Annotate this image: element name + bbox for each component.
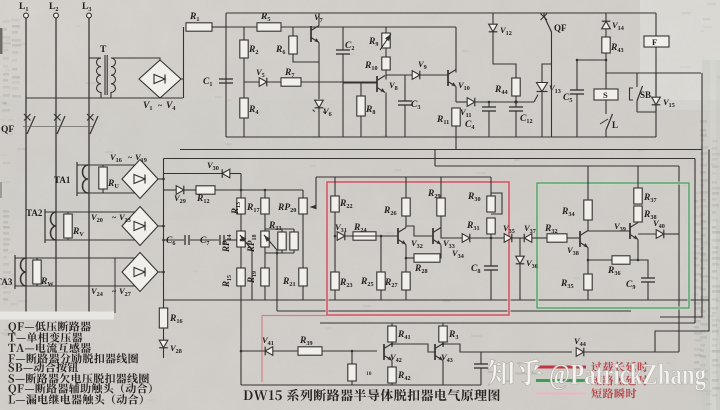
current transformer TA2 <box>26 208 56 243</box>
wire R1 to bus <box>212 26 226 28</box>
resistor R4 <box>240 98 259 118</box>
wire V38 collector <box>587 220 589 231</box>
label V16~V19 <box>110 152 147 164</box>
svg-text:SB: SB <box>640 90 651 100</box>
wire cap row <box>164 239 242 241</box>
title text <box>244 389 500 401</box>
wire amp top bus <box>316 176 491 178</box>
wire column B <box>264 190 266 300</box>
diode V41 <box>262 335 274 355</box>
label V1~V4 <box>143 101 175 112</box>
diode V29 <box>174 186 186 206</box>
resistor R31 <box>466 218 495 238</box>
legend line instantaneous (pink) <box>536 388 636 398</box>
svg-text:F: F <box>652 37 657 47</box>
capacitor C10 <box>474 352 488 385</box>
capacitor C2 <box>336 27 354 137</box>
wire bus B <box>180 149 702 151</box>
box overload long-delay (red) <box>327 182 509 315</box>
diode V37 <box>512 223 547 242</box>
resistor R21 <box>282 268 307 288</box>
wire V39 base <box>588 230 630 232</box>
bridge rectifier V20~V23 <box>122 207 158 246</box>
contact L <box>600 100 618 137</box>
wire T primary <box>89 58 101 98</box>
resistor R28 <box>406 245 441 275</box>
diode V31 <box>335 222 347 240</box>
resistor R29 <box>427 177 445 216</box>
diode V9 <box>412 59 427 79</box>
transistor V38 <box>567 231 588 258</box>
potentiometer RP14 <box>221 231 252 253</box>
wire V32 emitter <box>405 245 407 273</box>
wire V43 emitter <box>442 361 444 386</box>
wire bus A <box>226 136 656 138</box>
wire TA1 out <box>158 178 164 180</box>
resistor R3 <box>439 323 459 347</box>
resistor R39 <box>298 336 377 355</box>
wire bottom rail <box>26 97 183 99</box>
resistor R38 <box>634 206 657 222</box>
wire bottom bus <box>241 384 481 386</box>
resistor R44 <box>494 78 520 102</box>
box short-circuit delay (green) <box>537 183 689 308</box>
wire phase L3 <box>88 18 90 313</box>
wire bus G <box>164 299 710 301</box>
wire SB rail <box>606 72 701 74</box>
capacitor C3 <box>398 75 420 137</box>
coil F <box>644 13 669 137</box>
resistor R10 <box>364 57 390 72</box>
wire TA2 rails <box>45 212 135 240</box>
capacitor C7 <box>200 235 224 247</box>
terminal L3 <box>82 2 91 21</box>
diode V14 <box>602 13 624 37</box>
wire TA bus vertical <box>163 159 165 309</box>
wire V34 out <box>470 237 504 239</box>
resistor R8 <box>357 83 376 137</box>
legend line overload (red) <box>536 362 648 372</box>
diode V30 <box>164 160 242 178</box>
wire red tail <box>262 316 327 383</box>
transistor V43 <box>435 344 453 365</box>
resistor R26 <box>383 177 410 217</box>
wire V32 collector <box>405 216 407 228</box>
wire R43 junction <box>577 60 606 89</box>
svg-text:QF: QF <box>1 125 14 135</box>
transistor V32 <box>398 228 423 251</box>
wire RP18 wiper <box>276 250 278 311</box>
button SB <box>630 73 652 112</box>
diode V11 <box>460 98 475 120</box>
wire RP14 wiper <box>251 250 253 300</box>
wire collector rail <box>386 74 412 76</box>
resistor R15 <box>221 268 245 288</box>
wire column C <box>302 190 304 300</box>
diode V12 <box>489 13 516 78</box>
terminal L1 <box>19 2 28 21</box>
svg-text:L: L <box>612 120 618 130</box>
svg-text:10: 10 <box>366 371 372 377</box>
resistor R11 <box>436 108 460 149</box>
breaker QF contacts <box>23 114 98 134</box>
diode V40 <box>653 218 679 238</box>
wire bus I <box>320 322 695 324</box>
resistor R36 <box>588 256 638 277</box>
resistor R17 <box>246 198 269 214</box>
wire V41 rail <box>241 350 298 352</box>
transformer T <box>97 45 116 95</box>
svg-text:S: S <box>603 90 608 100</box>
wire gate line <box>456 101 534 103</box>
wire phase L1 <box>25 18 27 313</box>
capacitor C6 <box>166 235 189 247</box>
diode V28 <box>159 328 182 358</box>
transistor V33 <box>433 228 455 251</box>
wire R2R4 column <box>243 27 245 137</box>
resistor R25 <box>360 236 385 300</box>
capacitor C5 <box>563 60 584 137</box>
watermark <box>488 358 706 391</box>
thyristor V13 <box>534 64 561 137</box>
label V20~V23 <box>91 212 131 224</box>
resistor R19 <box>246 268 269 286</box>
capacitor C12 <box>509 102 533 137</box>
wire phase L2 <box>55 18 57 313</box>
potentiometer R9 <box>368 33 391 50</box>
wire TA3 rails <box>15 258 135 286</box>
capacitor C9 <box>626 278 655 300</box>
resistor R40 <box>348 351 372 385</box>
wire TA1 rails <box>77 165 135 193</box>
wire T secondary top <box>111 58 160 60</box>
wire column A <box>240 174 242 386</box>
resistor R35 <box>560 274 592 300</box>
transistor V8 <box>377 75 398 137</box>
diode V34 <box>452 234 470 261</box>
resistor R22 <box>331 196 353 212</box>
diode V35 <box>503 223 515 242</box>
coil S <box>594 89 618 100</box>
resistor R30 <box>467 177 502 214</box>
wire mid bus <box>212 26 456 28</box>
wire TA3 out <box>158 271 164 273</box>
label V24~V27 <box>91 286 131 298</box>
resistor R34 <box>561 166 592 220</box>
resistor R13 <box>230 198 245 215</box>
bridge rectifier V16~V19 <box>122 160 158 199</box>
current transformer TA1 <box>54 162 88 196</box>
node gate junction <box>514 100 517 103</box>
wire stub extra <box>114 258 116 313</box>
wire bus D <box>435 150 679 167</box>
wire right ladder 1 <box>660 73 702 317</box>
wire zener rail <box>244 81 377 83</box>
resistor R41 <box>388 323 411 347</box>
wire V33 base <box>406 226 433 236</box>
resistor Rv <box>64 212 85 240</box>
potentiometer RP18 <box>246 231 277 253</box>
svg-text:TA3: TA3 <box>0 277 13 287</box>
resistor R37 <box>634 166 657 204</box>
transistor V39 <box>614 221 638 240</box>
wire V40 feed <box>638 233 656 235</box>
resistor R6 <box>275 27 319 62</box>
wire RP20 wiper <box>310 177 317 209</box>
whiteout strip <box>0 312 114 320</box>
capacitor C4 <box>465 102 496 137</box>
wire V33 collector <box>441 216 462 238</box>
potentiometer RP20 <box>277 198 307 214</box>
diode V44 <box>574 336 679 356</box>
resistor R42 <box>388 361 411 386</box>
wire R22 column <box>334 177 336 300</box>
wire R9 column <box>385 27 387 78</box>
resistor R16 <box>159 308 182 328</box>
wire V32 base <box>345 235 398 237</box>
resistor R5 <box>257 12 281 31</box>
bridge rectifier V24~V27 <box>122 253 158 292</box>
current transformer TA3 <box>0 255 26 289</box>
resistor R7 <box>281 68 301 86</box>
zener V6 <box>313 100 332 137</box>
wire V39 emitter <box>638 240 648 279</box>
transistor V42 <box>384 344 402 365</box>
svg-text:TA1: TA1 <box>54 175 71 185</box>
capacitor C8 <box>471 238 498 300</box>
wire TA2 out <box>158 225 164 227</box>
resistor Ru <box>99 165 120 193</box>
label QF <box>1 125 14 135</box>
wire SB bottom <box>637 111 656 113</box>
resistor R43 <box>602 37 624 60</box>
wire right ladder 4 <box>655 150 709 353</box>
wire V39 collector <box>637 221 639 224</box>
svg-text:T: T <box>100 45 107 55</box>
node bus left vertical <box>225 13 227 137</box>
switch QF aux <box>541 13 568 137</box>
resistor R1 <box>186 12 212 31</box>
terminal L2 <box>49 2 58 21</box>
wire right ladder 2 <box>678 166 680 352</box>
wire V38 emitter <box>587 248 589 275</box>
diode V5 <box>256 67 267 86</box>
wire bus C <box>164 158 632 160</box>
wire T secondary bottom <box>110 92 112 98</box>
wire det rail <box>164 189 304 191</box>
resistor R23 <box>331 272 353 290</box>
wire V8 base <box>343 82 377 84</box>
capacitor C1 <box>203 77 233 88</box>
resistor Rw <box>33 258 55 288</box>
transistor V10 <box>448 27 470 102</box>
wire bridge output <box>181 27 184 98</box>
wire right ladder 3 <box>631 159 695 324</box>
svg-text:TA2: TA2 <box>26 208 43 218</box>
wire top bus <box>226 12 656 14</box>
resistor R24 <box>353 223 376 240</box>
wire V42-V43 link <box>392 344 435 352</box>
wire V9 to V10 <box>420 74 448 76</box>
wire bus H <box>277 310 631 312</box>
resistor R2 <box>240 40 259 58</box>
diode V15 <box>652 73 675 112</box>
diode V36 <box>516 238 538 300</box>
bridge rectifier V1~V4 <box>139 60 181 98</box>
svg-text:@PatrickZhang: @PatrickZhang <box>549 358 706 391</box>
legend line short delay (green) <box>536 375 648 385</box>
resistor R33 pair <box>265 221 298 253</box>
legend component key <box>8 321 152 404</box>
resistor R27 <box>384 272 410 300</box>
svg-text:QF: QF <box>554 23 567 33</box>
resistor R32 <box>544 224 580 242</box>
resistor R12 <box>196 186 215 205</box>
transistor V7 <box>281 12 323 99</box>
wire V43 out <box>443 344 572 352</box>
